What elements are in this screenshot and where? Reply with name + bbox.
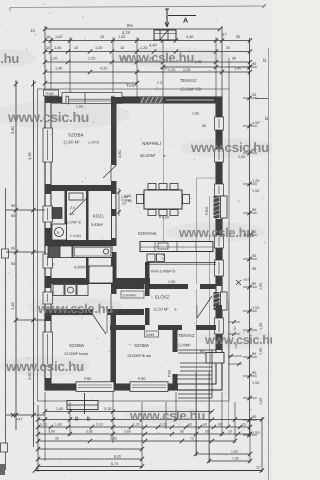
bottom right dim 100	[209, 460, 250, 462]
wc boiler circle b	[55, 228, 64, 237]
vertical extension x229	[228, 58, 230, 89]
right wall window 7	[215, 318, 224, 334]
vertical extension x51	[50, 37, 52, 103]
terrace step block east	[206, 353, 224, 364]
bottom dim verticals	[37, 405, 39, 472]
left boundary marker box upper	[2, 249, 9, 258]
kamra-elosz wall H6	[145, 284, 216, 289]
interior partition wc-middle	[65, 191, 68, 240]
bottom-left corner blob	[0, 464, 5, 475]
right wall window 1	[215, 117, 224, 130]
left wall junction block 1	[45, 184, 51, 194]
section arrow into chimney	[165, 30, 167, 40]
top dim line 4	[45, 61, 250, 63]
exterior wall outer face	[45, 97, 222, 390]
label TH02 box	[44, 90, 59, 96]
bath tub	[73, 246, 112, 258]
interior wall H4a top of szoba2	[51, 309, 144, 315]
right wall block 6	[216, 276, 222, 286]
top dim line 6 short	[45, 82, 137, 84]
bottom dim row 3	[38, 426, 250, 428]
dim extension line x228 east	[228, 300, 230, 427]
entrance door leaf	[221, 292, 228, 310]
chimney box at top	[154, 30, 176, 40]
left dim tick row y415	[6, 414, 45, 416]
left wall junction block 3	[45, 276, 51, 288]
exterior wall inner face	[51, 103, 216, 384]
svg-text:www.csle.hu: www.csle.hu	[178, 225, 254, 240]
right wall block 7	[216, 305, 222, 318]
bottom dim row 1	[45, 411, 212, 413]
right wall window 2	[215, 149, 224, 162]
wc door swing	[70, 197, 88, 215]
right wall block 1	[216, 103, 222, 117]
right wall window 5	[215, 260, 224, 276]
chairs above table	[148, 184, 156, 190]
top dim line 5	[45, 71, 250, 73]
interior wall H1 below SZOBA	[51, 185, 116, 191]
dim extension line x196 east	[196, 178, 198, 456]
section marker A arrow	[166, 9, 168, 27]
bath machines	[48, 246, 60, 258]
interior partition V1 mid2	[111, 252, 117, 294]
left wall junction block 2	[45, 228, 51, 246]
interior partition V1 junction upper	[111, 181, 117, 194]
right wall terrace door P150 hatched block	[214, 196, 220, 218]
zuhanyzo partition	[117, 284, 145, 289]
vertical extension x137	[136, 37, 138, 97]
chair right of table	[183, 195, 190, 204]
top dim line 3	[45, 51, 250, 53]
section B marker bar	[67, 401, 98, 410]
chair left of table	[137, 195, 144, 204]
bottom dim row 7 with 820	[38, 458, 142, 460]
left dim tick row y210	[6, 209, 45, 211]
elosz entry door swing	[197, 296, 212, 318]
top wall hatched pier	[140, 97, 163, 103]
left site boundary line	[5, 188, 7, 470]
bottom wall pier left	[45, 384, 76, 390]
terrace south edge	[176, 374, 212, 376]
svg-text:www.csic.hu: www.csic.hu	[7, 109, 89, 125]
bottom right dim 160	[196, 453, 250, 455]
wc sink dark fixture	[52, 208, 62, 219]
interior wall H4b elosz-terasz south	[110, 325, 216, 330]
bath washbasin circle	[103, 249, 108, 254]
right wall block 2	[216, 130, 222, 149]
elosz west wall	[145, 289, 150, 325]
kitchen appliance boxes	[147, 254, 155, 262]
door label S299	[145, 331, 159, 337]
interior partition V1 mid junction	[111, 209, 117, 216]
right wall window 4	[215, 235, 224, 248]
right side short line at y98	[255, 98, 268, 100]
terrace slab outline	[211, 350, 213, 398]
north terrace dim line	[163, 66, 250, 68]
right dim vline	[249, 38, 251, 437]
terrace door leaf	[221, 196, 228, 218]
right wall entrance door dark block	[214, 292, 220, 310]
kamra west wall	[145, 262, 150, 284]
vertical extension x113	[112, 37, 114, 97]
dim extension line x209 east	[209, 196, 211, 463]
left wall window laundry	[43, 292, 53, 304]
left wall window SZOBA west	[43, 128, 53, 162]
bottom wall pier mid	[114, 384, 132, 390]
scan smudge patches	[0, 47, 278, 424]
kamra top thin wall	[145, 262, 216, 264]
top wall solid right section	[163, 97, 222, 103]
svg-text:www.csle.hu: www.csle.hu	[37, 301, 113, 316]
top wall pier mid	[114, 97, 140, 103]
svg-text:www.csle.hu: www.csle.hu	[118, 50, 194, 65]
kitchen sink detail	[158, 243, 168, 249]
left dim vline outer	[15, 80, 17, 430]
vertical extension x70	[69, 37, 71, 99]
dining table	[144, 190, 182, 209]
vertical extension x45 top	[44, 26, 46, 97]
room label ZUHANYZO boxed	[121, 291, 144, 298]
door opening header line	[197, 177, 217, 179]
left wall window szoba3 west	[43, 332, 53, 366]
vertical extension x222	[221, 26, 223, 97]
laundry machines row	[53, 285, 64, 296]
left wall junction block 4	[45, 309, 51, 321]
left boundary marker box lower	[1, 443, 8, 452]
door SZOBA opening and swing	[110, 165, 112, 181]
svg-text:www.csle.hu: www.csle.hu	[0, 51, 19, 66]
bottom wall window P80	[76, 382, 114, 392]
left wall window wc	[43, 206, 53, 222]
interior partition bath east	[86, 246, 89, 278]
interior wall H2 wc-bath	[51, 240, 116, 246]
terrace steps	[180, 362, 212, 364]
right wall block 4	[216, 219, 222, 235]
bath corner shower base	[89, 266, 113, 283]
right wall block 3	[216, 162, 222, 184]
interior partition V1 szoba-nappali	[111, 97, 117, 165]
svg-text:www.csic.hu: www.csic.hu	[190, 140, 269, 155]
svg-text:www.csle.hu: www.csle.hu	[129, 408, 205, 423]
bottom dim row 4	[38, 433, 250, 435]
vertical extension x163	[162, 37, 164, 67]
right inner dim marks near elosz	[228, 321, 240, 323]
interior wall H3 bath-laundry	[51, 278, 150, 284]
middle room fixture	[69, 193, 83, 200]
bottom dim row 6 short	[38, 448, 142, 450]
north terrace outline verticals	[162, 67, 164, 97]
top wall window SZOBA	[62, 93, 122, 104]
elevation mark 0,00	[159, 211, 161, 218]
right page border line	[268, 48, 270, 480]
bottom dim row 2	[38, 419, 262, 421]
interior partition V1 junction h2	[111, 238, 117, 246]
right dim ticks and labels	[243, 66, 257, 68]
left dim tick row y252	[6, 251, 45, 253]
szoba3-terasz wall	[173, 330, 178, 385]
interior partition middle-kozl	[86, 191, 89, 240]
top margin line	[10, 6, 265, 8]
right wall block 5	[216, 248, 222, 260]
chairs below table	[148, 210, 156, 216]
bottom dim row 5	[38, 440, 235, 442]
right wall window 3 upper	[215, 184, 224, 196]
left dim top ticks	[31, 82, 35, 86]
bottom dim row 9 overall	[35, 470, 262, 472]
nappali internal dim marks	[118, 188, 120, 216]
left wall window bath	[43, 254, 53, 268]
bottom wall window P90	[130, 382, 168, 392]
section line AA through plan	[163, 103, 165, 243]
top dim line 2	[45, 40, 250, 42]
left dim vline inner	[33, 80, 35, 447]
bottom wall pier right	[168, 384, 178, 390]
top wall solid pier left corner	[45, 97, 68, 103]
terrace north edge lines	[178, 349, 216, 351]
svg-text:www.csic.hu: www.csic.hu	[204, 333, 272, 347]
door szoba2 swing	[93, 315, 106, 334]
interior partition V1 double line kozl	[111, 194, 113, 244]
top dim line 1 overall	[45, 28, 220, 30]
right wall block 8	[216, 334, 222, 350]
left dim tick row y320	[16, 319, 45, 321]
vertical extension x216	[215, 37, 217, 67]
interior partition V1 szoba2-szoba3	[111, 315, 117, 385]
bottom dim row 8 with 674	[38, 466, 142, 468]
wc boiler box	[52, 224, 67, 240]
svg-text:www.csic.hu: www.csic.hu	[5, 359, 84, 374]
roof eaves outline	[38, 89, 230, 401]
interior partition V1 gap door	[110, 294, 112, 308]
left wall corner block bottom	[45, 378, 51, 390]
kitchen counter band	[140, 242, 213, 252]
